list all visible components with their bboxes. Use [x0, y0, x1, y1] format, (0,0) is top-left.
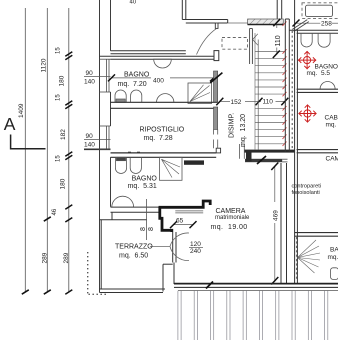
svg-text:90: 90 [86, 70, 94, 77]
dashed lining line right wall [291, 31, 293, 149]
svg-text:BAG: BAG [330, 247, 338, 254]
svg-text:46: 46 [52, 208, 58, 215]
step down to terrace pilaster [160, 207, 172, 233]
bidet bagno 7.20 [131, 90, 142, 102]
svg-text:65: 65 [176, 218, 184, 225]
bidet bagno 5.31 [130, 157, 141, 173]
camera east wall [281, 163, 287, 284]
dim 469 camera [274, 166, 276, 282]
stair top bar (hatched) [248, 19, 284, 25]
sink bagno 7.20 top [154, 59, 172, 68]
svg-text:110: 110 [263, 99, 274, 106]
svg-text:CAMERA: CAMERA [326, 156, 338, 163]
camera top wall [184, 160, 204, 164]
toilet bagno 5.31 [115, 157, 126, 173]
svg-text:CABINA: CABINA [325, 115, 338, 122]
svg-text:mq. 6.50: mq. 6.50 [119, 252, 148, 259]
disimp-camera door jambs [240, 144, 245, 159]
landing left wall [250, 29, 253, 65]
dim 400 interior [112, 77, 151, 79]
terrace dotted open edge [88, 252, 108, 294]
top-right wardrobe dashed [302, 3, 338, 19]
svg-text:15: 15 [56, 47, 62, 54]
svg-text:152: 152 [231, 99, 242, 106]
svg-text:140: 140 [84, 79, 95, 86]
right column top wall [289, 30, 338, 33]
svg-text:RIPOSTIGLIO: RIPOSTIGLIO [140, 126, 185, 133]
svg-text:matrimoniale: matrimoniale [215, 215, 250, 221]
dimension line 1409 [24, 8, 26, 292]
bidet bagno dx [318, 34, 330, 47]
svg-text:180: 180 [59, 75, 66, 86]
tick on camera top wall [257, 156, 266, 164]
svg-text:180: 180 [60, 178, 67, 189]
window 90/140 ripostiglio [100, 126, 111, 149]
sink2 bagno 7.20 bottom [157, 94, 174, 103]
window 90/140 bagno 7.20 [100, 59, 111, 92]
wall camera dx bottom [295, 233, 338, 237]
svg-text:40: 40 [130, 0, 137, 6]
svg-text:15: 15 [56, 155, 62, 162]
dimension line 1120 / 289 [46, 8, 48, 292]
terrace bottom wall [100, 289, 166, 293]
shower bagno 5.31 [160, 157, 183, 180]
sink bagno dx [320, 82, 335, 89]
svg-text:90: 90 [86, 133, 94, 140]
fixture bottom right [331, 268, 338, 280]
toilet bagno 7.20 [115, 90, 126, 102]
wall bagno7.20 / ripostiglio [111, 102, 218, 108]
svg-text:15: 15 [56, 94, 62, 101]
stair treads [255, 33, 285, 150]
svg-text:289: 289 [63, 252, 70, 263]
light rays symbol [298, 240, 321, 273]
svg-text:469: 469 [272, 210, 279, 221]
stair walking line + arrow [253, 34, 259, 150]
svg-text:A: A [4, 114, 16, 134]
svg-text:240: 240 [190, 248, 201, 255]
door leaf tick bagno 7.20 [210, 73, 222, 83]
disimpegno upper bar [244, 150, 295, 153]
wall bagno 5.31 bottom (hollow, 46) [100, 207, 159, 289]
toilet bagno dx [301, 34, 312, 47]
balcony top line [178, 289, 338, 291]
svg-text:DISIMP.: DISIMP. [229, 113, 236, 138]
dashed wardrobe corridoio [222, 38, 248, 50]
niche face lines [175, 210, 203, 212]
top-left neighbour room wall [182, 0, 227, 23]
threshold line landing [228, 22, 248, 24]
svg-text:contropareti: contropareti [292, 183, 322, 189]
svg-text:mq. 19.00: mq. 19.00 [211, 224, 248, 231]
dimension chain line 15/180/15/182/15/180/46/289 [68, 8, 70, 292]
svg-text:mq.: mq. [328, 254, 338, 261]
section dots [128, 151, 131, 153]
balcony posts [178, 291, 328, 340]
svg-text:140: 140 [84, 142, 95, 149]
camera NW corner wall (thick outline) [159, 201, 211, 207]
camera west wall door jambs (double line) [163, 232, 176, 292]
bottom wall (camera + right rooms) [174, 284, 338, 288]
door jamb nub [215, 23, 218, 28]
wall ripostiglio / bagno 5.31 [111, 153, 217, 157]
exterior left wall [100, 0, 111, 293]
dim 258 [297, 22, 321, 24]
svg-text:BAGNO: BAGNO [132, 175, 158, 182]
svg-text:mq.: mq. [326, 122, 337, 129]
wall bagno dx bottom [297, 89, 338, 92]
disimpegno lower bar [245, 159, 282, 162]
svg-text:1120: 1120 [41, 58, 48, 72]
dim 90/140 window1 [84, 75, 111, 77]
bagno 7.20 top wall [100, 56, 215, 59]
svg-text:fonoisolanti: fonoisolanti [292, 190, 320, 196]
sink bagno 5.31 on bottom wall [112, 196, 134, 207]
connector [246, 151, 252, 162]
svg-text:mq. 7.20: mq. 7.20 [118, 81, 147, 88]
dim 90/140 window2 [84, 138, 111, 140]
corner tick camera bottom [206, 282, 213, 289]
svg-text:8: 8 [140, 227, 147, 231]
svg-text:110: 110 [275, 35, 282, 46]
svg-text:182: 182 [60, 129, 67, 140]
section line stub through window [84, 148, 111, 150]
dim 152 / 110 horizontal [258, 97, 278, 106]
red diffuser cross cabina [299, 105, 317, 123]
wall end cap [214, 51, 219, 61]
svg-text:1409: 1409 [18, 103, 25, 118]
svg-text:400: 400 [153, 77, 164, 84]
shower bagno 7.20 [188, 83, 212, 104]
svg-text:mq. 5.31: mq. 5.31 [128, 183, 157, 190]
wall above stair landing [277, 0, 282, 19]
svg-text:BAGNO: BAGNO [124, 72, 150, 79]
svg-text:289: 289 [42, 252, 49, 263]
neighbour room south wall [111, 51, 186, 54]
dim 110 vertical stair [276, 25, 278, 55]
svg-text:TERRAZZO: TERRAZZO [115, 244, 153, 251]
wall cabina bottom [297, 150, 338, 153]
right column left wall [295, 0, 298, 284]
svg-text:8: 8 [148, 227, 155, 231]
svg-text:mq. 7.28: mq. 7.28 [144, 135, 173, 142]
stairwell right wall [285, 19, 289, 152]
svg-text:mq. 5.5: mq. 5.5 [307, 70, 331, 77]
red tread ticks [283, 22, 287, 147]
step jamb line with 8 8 marks [146, 199, 148, 240]
jamb nub ripostiglio [216, 148, 220, 153]
bottom-right room dashed edge [295, 237, 297, 279]
disimpegno left wall [214, 71, 218, 102]
door swing arc top room [197, 28, 217, 54]
svg-text:258: 258 [321, 21, 332, 28]
red diffuser cross bagno dx [298, 51, 316, 69]
chamfer corner wall [292, 20, 309, 32]
door 120/240 double arcs [170, 233, 189, 246]
svg-text:mq. 13.20: mq. 13.20 [240, 114, 247, 147]
